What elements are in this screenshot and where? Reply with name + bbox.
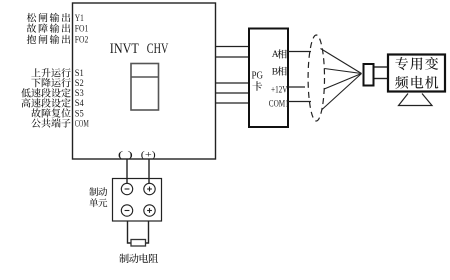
pin B-phase label — [272, 66, 287, 77]
terminal FO2 — [75, 36, 89, 46]
brake resistor R1 — [131, 240, 146, 247]
svg-text:(+): (+) — [141, 149, 156, 160]
wire inverter to PG card 3 — [216, 82, 249, 84]
wire inverter to PG card 5 — [216, 102, 249, 104]
label 制动单元 — [89, 187, 107, 207]
svg-text:( ): ( ) — [118, 149, 133, 160]
wire inverter to PG card 2 — [216, 56, 249, 58]
svg-text:INVT: INVT — [110, 41, 139, 57]
svg-text:S2: S2 — [75, 79, 84, 89]
svg-text:B: B — [272, 67, 278, 77]
terminal S2 — [75, 79, 84, 89]
svg-text:COM: COM — [75, 119, 89, 129]
keypad display rectangle inside inverter — [131, 64, 159, 111]
cable wire 1 converging to connector — [321, 49, 362, 74]
label 卡 — [252, 81, 262, 91]
PG card U2 box — [249, 29, 288, 128]
terminal S1 — [75, 69, 84, 79]
inverter U1 main box INVT CHV — [73, 3, 216, 159]
pin COM1 label — [269, 100, 289, 110]
wire COM1 from PG card — [288, 101, 311, 103]
label 上升运行 — [31, 68, 70, 77]
cable bundle ellipse (dashed) — [308, 35, 324, 121]
terminal COM — [75, 119, 89, 129]
brake unit box — [113, 179, 162, 222]
terminal circle plus bottom-right — [144, 205, 155, 216]
svg-text:CHV: CHV — [147, 41, 169, 57]
terminal FO1 — [75, 25, 89, 35]
pin A-phase label — [272, 49, 287, 60]
svg-text:PG: PG — [252, 71, 264, 82]
svg-text:S4: S4 — [75, 99, 84, 109]
label 故障输出 — [27, 24, 70, 33]
wire inverter to PG card 1 — [216, 46, 249, 48]
label 低速段设定 — [21, 88, 70, 97]
terminal (+) label — [141, 149, 156, 160]
wire inverter to PG card 4 — [216, 92, 249, 94]
terminal (-) label — [118, 149, 133, 160]
terminal S3 — [75, 89, 84, 99]
wire (-) bus down to brake unit — [126, 160, 128, 184]
wire brake unit to resistor left — [128, 221, 132, 243]
svg-text:+12V: +12V — [271, 86, 288, 96]
svg-text:COM1: COM1 — [269, 100, 289, 110]
cable wire 4 converging to connector — [322, 74, 362, 110]
encoder connector block — [364, 64, 374, 86]
svg-text:FO2: FO2 — [75, 36, 89, 46]
label 松闸输出 — [27, 13, 70, 22]
label 频电机 — [395, 76, 438, 89]
svg-text:S1: S1 — [75, 69, 84, 79]
label 高速段设定 — [22, 98, 71, 107]
label 公共端子 — [31, 118, 70, 127]
svg-text:S3: S3 — [75, 89, 84, 99]
terminal circle minus bottom-left — [121, 205, 132, 216]
wire +12V from PG card — [288, 86, 305, 88]
svg-text:Y1: Y1 — [75, 14, 84, 24]
terminal circle minus top-left — [121, 183, 132, 194]
label 专用变 — [395, 57, 438, 70]
motor stand trapezoid — [399, 94, 433, 106]
pin +12V label — [271, 86, 288, 96]
label 故障复位 — [31, 108, 70, 117]
svg-text:S5: S5 — [75, 109, 84, 119]
svg-text:FO1: FO1 — [75, 25, 89, 35]
terminal S5 — [75, 109, 84, 119]
label 抱闸输出 — [27, 35, 70, 44]
cable wire 2 converging to connector — [324, 69, 361, 74]
label 下降运行 — [31, 78, 70, 87]
label 制动电阻 — [119, 254, 158, 263]
wire A-phase from PG card — [288, 51, 311, 53]
terminal circle plus top-right — [144, 183, 155, 194]
terminal Y1 — [75, 14, 84, 24]
label PG — [252, 71, 264, 82]
cable wire 3 converging to connector — [324, 74, 361, 90]
terminal S4 — [75, 99, 84, 109]
wire (+) bus down to brake unit — [148, 160, 150, 184]
shaft coupling lines — [375, 67, 389, 79]
wire brake unit to resistor right — [145, 221, 149, 243]
motor M1 box 专用变频电机 — [388, 55, 445, 92]
label INVT CHV — [110, 41, 169, 57]
